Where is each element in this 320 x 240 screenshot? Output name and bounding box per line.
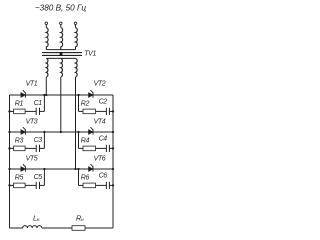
- svg-text:R1: R1: [15, 101, 24, 108]
- svg-text:VT4: VT4: [94, 119, 106, 126]
- svg-text:C2: C2: [99, 99, 108, 106]
- svg-text:C5: C5: [34, 174, 43, 181]
- svg-text:VT5: VT5: [26, 156, 38, 163]
- svg-text:Rн: Rн: [76, 213, 84, 223]
- svg-text:R5: R5: [15, 175, 24, 182]
- svg-text:VT2: VT2: [94, 81, 106, 88]
- svg-text:R6: R6: [81, 175, 90, 182]
- svg-text:R3: R3: [15, 138, 24, 145]
- svg-text:TV1: TV1: [84, 51, 96, 58]
- svg-text:C4: C4: [99, 136, 108, 143]
- svg-text:VT6: VT6: [94, 156, 106, 163]
- svg-text:R2: R2: [81, 101, 90, 108]
- svg-text:C3: C3: [34, 137, 43, 144]
- svg-text:C6: C6: [99, 173, 108, 180]
- svg-text:C1: C1: [34, 100, 43, 107]
- svg-text:R4: R4: [81, 138, 90, 145]
- svg-text:~380 В, 50 Гц: ~380 В, 50 Гц: [35, 4, 87, 13]
- svg-text:VT3: VT3: [26, 119, 38, 126]
- svg-text:Lн: Lн: [33, 213, 40, 223]
- svg-text:VT1: VT1: [26, 81, 38, 88]
